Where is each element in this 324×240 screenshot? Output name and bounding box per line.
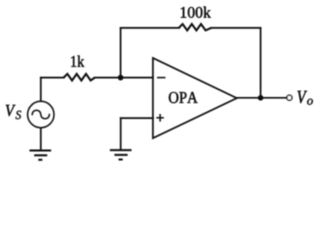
voltage source VS: circle	[28, 101, 54, 127]
wire: node A vertical up to feedback	[120, 28, 122, 78]
op-amp U1 triangle	[153, 58, 237, 138]
label Vo (V)	[298, 91, 308, 103]
wire: non-inverting input horizontal	[121, 117, 153, 119]
op-amp inverting input minus sign	[158, 77, 165, 79]
wire: output horizontal to terminal	[237, 97, 287, 99]
wire: R1 to op-amp inverting input	[95, 77, 153, 79]
node A junction dot	[118, 75, 124, 81]
label VS (subscript S)	[16, 111, 22, 119]
voltage source VS: sine wave	[32, 110, 49, 119]
resistor R1 (1k) zigzag	[64, 74, 95, 81]
output terminal open circle	[287, 95, 292, 100]
label OPA	[169, 92, 198, 103]
wire: source top vertical	[40, 78, 42, 102]
wire: source bottom vertical to ground	[40, 128, 42, 149]
wire: non-inverting input vertical down to ground	[120, 118, 122, 149]
ground symbol (op-amp plus input)	[110, 150, 132, 159]
label Vo (subscript o)	[307, 99, 313, 105]
wire: feedback top horizontal (right of RF)	[212, 27, 261, 29]
label 100k	[181, 7, 211, 18]
wire: feedback top horizontal (left of RF)	[121, 27, 180, 29]
ground symbol (source)	[30, 151, 52, 160]
resistor RF (100k) zigzag	[179, 24, 212, 30]
wire: main horizontal from source to R1	[41, 77, 64, 79]
label VS (V)	[6, 105, 16, 116]
label 1k	[71, 56, 84, 67]
output node junction dot	[258, 95, 264, 101]
op-amp non-inverting input plus sign	[156, 114, 164, 122]
wire: feedback right vertical down to output node	[260, 28, 262, 98]
